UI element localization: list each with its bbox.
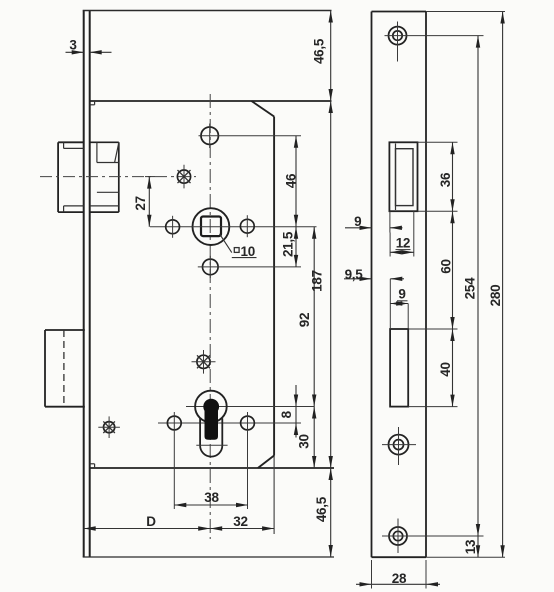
- svg-text:13: 13: [463, 539, 478, 554]
- dim 9 (plate edge to latch cutout): [345, 227, 372, 229]
- cutout extensions to 40: [408, 328, 457, 330]
- svg-text:46: 46: [284, 173, 299, 188]
- keyhole row extension line (92 / 8): [186, 406, 314, 408]
- keyhole right hole: [241, 416, 255, 430]
- faceplate outline: [371, 12, 373, 558]
- leader line for square 10 label: [220, 234, 232, 253]
- svg-text:3: 3: [69, 38, 77, 53]
- hole below hub: [203, 259, 219, 275]
- extension from top screw to 254: [411, 35, 484, 37]
- extension from bottom screw to 254/13: [415, 535, 484, 537]
- svg-text:46,5: 46,5: [311, 38, 326, 64]
- dim 28 (plate width): [356, 583, 440, 585]
- latch cutout: [389, 142, 417, 211]
- svg-text:32: 32: [233, 514, 247, 529]
- keyhole black key profile: [203, 399, 219, 415]
- deadbolt cutout: [390, 329, 408, 407]
- latch bolt tail (inside case): [90, 141, 119, 143]
- svg-text:9: 9: [398, 287, 405, 302]
- dim line column x=296 : 46 and 21,5 and 8: [295, 136, 297, 267]
- svg-text:92: 92: [297, 313, 312, 327]
- hub row extension line (27 / 46 / 21,5 / 92): [150, 226, 317, 228]
- top-left step notch: [90, 104, 95, 106]
- faceplate bottom edge + extension line: [83, 556, 334, 558]
- screw boss (star) left: [104, 422, 115, 433]
- hub square (10 mm): [201, 217, 221, 237]
- follower hub circle: [193, 208, 230, 245]
- faceplate top edge + extension line to 46,5 dimension: [83, 10, 332, 12]
- top hole: [201, 127, 218, 144]
- svg-text:280: 280: [488, 285, 503, 307]
- latch centreline: [40, 176, 196, 178]
- svg-text:12: 12: [396, 236, 410, 251]
- dim 9 (deadbolt cutout width): [390, 303, 408, 305]
- bottom edge extension to 280: [426, 556, 505, 558]
- keyhole side holes row extension (8 / 38): [158, 422, 301, 424]
- svg-text:27: 27: [133, 196, 148, 210]
- deadbolt hidden line: [63, 330, 65, 407]
- dim column x=478 : 254 / 13: [477, 36, 479, 558]
- cutout extensions to 36: [418, 141, 458, 143]
- deadbolt (outside faceplate): [45, 329, 85, 331]
- bottom-right chamfer: [258, 456, 274, 469]
- dim 27 (hub to upper screw boss): [148, 177, 150, 227]
- svg-text:60: 60: [438, 259, 453, 273]
- dim 8 (keyhole centre to side holes) arrows outside: [295, 385, 297, 438]
- dim 3 (faceplate thickness): [66, 51, 84, 53]
- dim column x=504.5 : 280: [502, 12, 504, 558]
- keyhole outline: [200, 418, 222, 456]
- svg-text:40: 40: [438, 362, 453, 376]
- faceplate side view (left strip): [83, 11, 85, 558]
- dim 9,5 (plate edge to deadbolt cutout): [344, 278, 372, 280]
- svg-text:10: 10: [241, 244, 255, 259]
- lock case right edge: [273, 117, 275, 456]
- vertical centreline of lock case: [209, 94, 211, 539]
- bottom-left step notch: [90, 463, 95, 465]
- hub right hole: [240, 219, 254, 233]
- dim D / 32 (backset line): [84, 528, 274, 530]
- svg-text:8: 8: [279, 410, 294, 418]
- labels on left view: [241, 244, 255, 259]
- top edge extension to 280: [426, 11, 505, 13]
- svg-text:28: 28: [392, 571, 407, 586]
- extension line from lower hole to 21,5 dimension: [198, 266, 301, 268]
- bottom screw hole: [389, 527, 407, 545]
- middle screw hole: [389, 435, 409, 455]
- dim column x=452.5 : 36 / 60 / 40: [452, 142, 454, 406]
- dim 12 (latch cutout width): [390, 251, 414, 253]
- svg-text:46,5: 46,5: [314, 496, 329, 522]
- 38 extension lines: [173, 412, 175, 509]
- dim line column x=330.7 : 46,5 / 187 / 46,5: [330, 11, 332, 558]
- extension line from top hole to 46 dimension: [199, 135, 302, 137]
- hub left hole: [166, 220, 180, 234]
- dim 38 (keyhole side holes): [174, 504, 248, 506]
- right edge extension down to 32 dimension: [273, 456, 275, 535]
- top screw hole: [389, 27, 407, 45]
- svg-text:21,5: 21,5: [281, 231, 296, 257]
- keyhole bottom cross line: [196, 444, 227, 446]
- svg-text:254: 254: [462, 277, 477, 299]
- top-right chamfer: [252, 101, 275, 117]
- lock case bottom edge + extension: [90, 467, 334, 469]
- keyhole left hole: [167, 416, 181, 430]
- svg-text:38: 38: [204, 490, 219, 505]
- screw boss (star) upper: [177, 170, 190, 183]
- svg-text:30: 30: [297, 434, 312, 448]
- svg-text:D: D: [146, 514, 156, 529]
- screw boss (star) lower: [197, 355, 210, 368]
- svg-text:9,5: 9,5: [345, 267, 364, 282]
- svg-text:9: 9: [354, 214, 361, 229]
- svg-text:187: 187: [309, 270, 324, 292]
- lock case top edge + extension to 187 dimension: [90, 100, 332, 102]
- dim line column x=314 : 92 and 30: [313, 227, 315, 468]
- svg-text:36: 36: [438, 172, 453, 187]
- latch bolt head (outside faceplate): [58, 141, 84, 143]
